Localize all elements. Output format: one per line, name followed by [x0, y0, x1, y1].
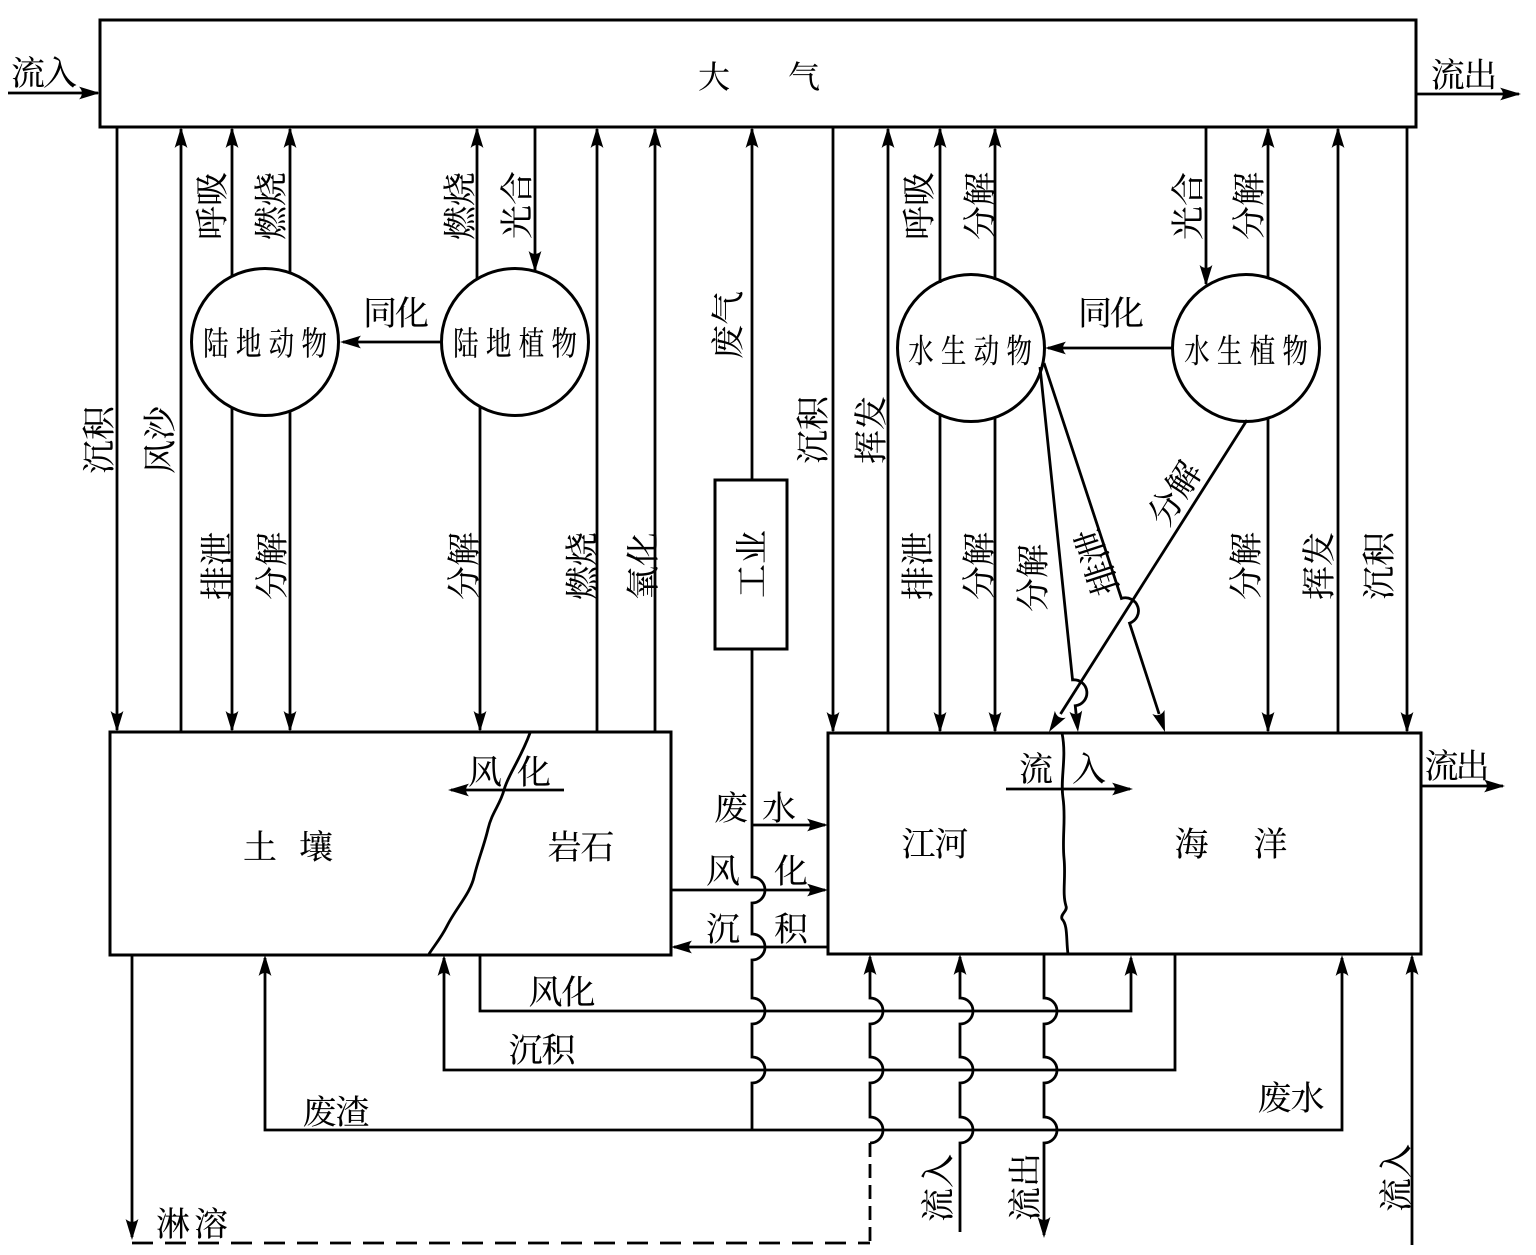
arrowhead 分解 aq.animals→atmosphere: [989, 127, 1002, 148]
arrowhead 燃烧 soil→atmosphere: [591, 127, 604, 148]
line 呼吸 aq.animals→atmosphere: [939, 129, 942, 283]
arrowhead 分解 aq.animals→river: [989, 712, 1002, 733]
arrowhead 沉积 atmosphere→soil: [111, 711, 124, 732]
arrowhead 废水 into river: [1336, 955, 1349, 976]
label 大气: [699, 61, 819, 91]
arrow outflow from atmosphere: [1416, 93, 1519, 96]
label 燃烧 plants→atmosphere: [443, 173, 474, 238]
arrow inflow to atmosphere: [8, 92, 98, 95]
arrowhead 淋溶 down: [126, 1219, 139, 1240]
line 挥发 river→atmosphere: [1337, 129, 1340, 733]
label 燃烧 animals→atmosphere: [254, 173, 285, 238]
box industry 工业: [715, 480, 787, 649]
label 挥发 river→atmosphere: [1302, 533, 1334, 599]
arrowhead 分解 diagonal L3: [1069, 710, 1082, 732]
arrowhead 沉积 atmosphere→river: [827, 712, 840, 733]
arrowhead 风化 bottom→river: [1125, 955, 1138, 976]
line industry waste down: [752, 649, 765, 1130]
arrowhead 废气 industry→atmosphere: [746, 127, 759, 148]
line 光合 atmosphere→plants: [534, 127, 537, 270]
arrowhead 光合 atmosphere→aq.plants: [1200, 265, 1213, 286]
label 风化 mid: [707, 854, 807, 885]
label 沉积 atmosphere→river: [1362, 534, 1393, 599]
arrowhead 分解 aq.plants→river: [1262, 712, 1275, 733]
label 分解 aq.plants→river: [1229, 533, 1261, 599]
label 同化 left: [367, 296, 428, 327]
arrowhead 流入 bottom→river: [954, 954, 967, 975]
line 燃烧 animals→atmosphere: [289, 129, 292, 273]
wavy divider river/ocean: [1062, 733, 1068, 954]
label 废水 bottom: [1259, 1081, 1324, 1113]
line 流出 river→bottom: [1044, 954, 1057, 1235]
line 沉积 atmosphere→river: [1406, 127, 1409, 731]
arrow 流入 river→ocean: [1006, 788, 1130, 791]
label 沉积 mid: [707, 912, 806, 943]
label 分解 plants→soil: [447, 533, 479, 599]
circle aquatic animals 水生动物: [898, 275, 1045, 422]
label 废渣: [304, 1095, 369, 1127]
label 流入 bottom-right: [1379, 1145, 1411, 1211]
label 风化 bottom: [530, 975, 595, 1006]
line 分解 aq.animals→atmosphere: [994, 129, 997, 280]
dashed groundwater line vertical: [869, 1143, 872, 1243]
line 流入 right→ocean: [1411, 957, 1414, 1245]
arrow 废水 industry→river: [752, 824, 825, 827]
arrowhead 呼吸 aq.animals→atmosphere: [934, 127, 947, 148]
line 风沙 soil→atmosphere: [180, 129, 183, 732]
line 流入 bottom→river: [960, 957, 973, 1232]
line 燃烧 soil→atmosphere: [596, 129, 599, 732]
label 淋溶: [157, 1207, 227, 1239]
label 流入 bottom: [921, 1155, 953, 1221]
line 排泄 aq.animals→river diagonal: [1044, 363, 1159, 714]
arrowhead outflow: [1500, 88, 1521, 101]
arrow weathering 风化 rock→soil: [451, 789, 564, 792]
label 风化 in soil box: [469, 755, 550, 786]
circle aquatic plants 水生植物: [1173, 275, 1320, 422]
box river-ocean 江河/海洋: [828, 733, 1421, 954]
label 沉积 atmosphere→river: [796, 398, 827, 463]
label 流出 right: [1426, 749, 1487, 781]
arrowhead 废水 industry→river: [807, 819, 828, 832]
line 分解 plants→soil: [479, 406, 482, 730]
arrow 流出 ocean→outside: [1421, 785, 1503, 788]
arrowhead 排泄 aq.animals→river: [934, 712, 947, 733]
label 岩石: [549, 830, 613, 861]
arrowhead 风沙 soil→atmosphere: [175, 127, 188, 148]
line 分解 animals→soil: [289, 411, 292, 730]
arrowhead 沉积 river→rock: [671, 941, 692, 954]
line 淋溶 soil→groundwater: [131, 955, 134, 1237]
circle terrestrial plants 陆地植物: [442, 269, 589, 416]
arrowhead 沉积 bottom→rock: [438, 955, 451, 976]
label 风沙 soil→atmosphere: [143, 407, 174, 472]
line 光合 atmosphere→aq.plants: [1205, 127, 1208, 284]
label 分解 aq.animals→river: [962, 533, 994, 599]
label 江河: [903, 828, 968, 859]
wavy divider soil/rock: [429, 733, 530, 954]
arrowhead 光合 atmosphere→plants: [529, 251, 542, 272]
arrow 沉积 river→rock: [674, 946, 828, 949]
arrow 风化 rock→river: [671, 889, 825, 892]
line 呼吸 animals→atmosphere: [231, 129, 234, 277]
line 氧化 soil→atmosphere: [654, 129, 657, 732]
arrowhead 废渣 into soil: [259, 955, 272, 976]
label 燃烧 soil→atmosphere: [565, 533, 596, 598]
arrowhead 风化 rock→river: [807, 884, 828, 897]
label 光合 atmosphere→plants: [500, 172, 531, 238]
label 分解: [1016, 545, 1048, 611]
arrowhead 呼吸 animals→atmosphere: [226, 127, 239, 148]
arrowhead 挥发 river→atmosphere: [882, 127, 895, 148]
arrowhead 燃烧 plants→atmosphere: [471, 127, 484, 148]
label 光合 atmosphere→aq.plants: [1171, 173, 1202, 239]
label 同化 right: [1082, 296, 1143, 327]
label 陆地动物: [205, 327, 326, 358]
arrowhead 同化 right: [1045, 342, 1066, 355]
label 呼吸 animals→atmosphere: [196, 173, 227, 237]
line 分解 aq.animals→river: [994, 417, 997, 731]
line groundwater→river: [870, 957, 883, 1143]
arrowhead 排泄 diagonal L1: [1152, 710, 1165, 732]
arrowhead 氧化 soil→atmosphere: [649, 127, 662, 148]
dashed groundwater line horizontal: [132, 1242, 870, 1245]
arrowhead 流入 right→ocean: [1406, 954, 1419, 975]
arrowhead 分解 aq.plants→atmosphere: [1262, 127, 1275, 148]
arrowhead 沉积 atmosphere→river: [1401, 712, 1414, 733]
arrowhead 挥发 river→atmosphere: [1332, 127, 1345, 148]
label 呼吸 aq.animals→atmosphere: [903, 173, 934, 237]
line 分解 aq.plants→river diagonal: [1061, 420, 1248, 714]
line 风化 rock→river bottom: [480, 955, 1131, 1011]
label 排泄 animals→soil: [200, 533, 231, 599]
label 挥发 river→atmosphere: [854, 397, 886, 463]
circle terrestrial animals 陆地动物: [192, 269, 339, 416]
label 分解 animals→soil: [255, 533, 287, 599]
label 流出 bottom: [1008, 1156, 1040, 1220]
arrowhead groundwater→river: [864, 954, 877, 975]
line 废气 industry→atmosphere: [751, 129, 754, 480]
line 排泄 animals→soil: [231, 407, 234, 730]
arrowhead 分解 animals→soil: [284, 711, 297, 732]
arrowhead 风化 in soil box: [448, 784, 469, 797]
label 沉积 bottom: [510, 1033, 574, 1064]
label 流出 top-right: [1432, 58, 1494, 90]
label 流入 top-left: [12, 56, 76, 88]
label 排泄 diagonal: [1071, 526, 1121, 599]
label 陆地植物: [455, 327, 576, 358]
arrowhead 分解 plants→soil: [474, 711, 487, 732]
arrowhead 排泄 animals→soil: [226, 711, 239, 732]
arrow assimilation right 同化: [1048, 347, 1172, 350]
label 废气 industry→atmosphere: [711, 292, 743, 358]
box atmosphere 大气: [100, 20, 1416, 127]
arrowhead 流入 river→ocean: [1112, 783, 1133, 796]
arrow assimilation left 同化: [343, 341, 441, 344]
line 沉积 atmosphere→soil: [116, 127, 119, 730]
arrowhead 同化 left: [340, 336, 361, 349]
label 土壤: [244, 830, 332, 862]
arrowhead inflow→atmosphere: [79, 87, 100, 100]
line 沉积 atmosphere→river: [832, 127, 835, 731]
label 分解 aq.plants→atmosphere: [1232, 173, 1264, 239]
arrowhead 流出 down: [1038, 1217, 1051, 1238]
label 流入 in river box: [1020, 752, 1105, 784]
label 分解 diagonal: [1143, 456, 1205, 529]
label 氧化 soil→atmosphere: [626, 533, 657, 598]
arrowhead 燃烧 animals→atmosphere: [284, 127, 297, 148]
label 废水 mid: [715, 791, 795, 823]
arrowhead 流出 ocean: [1484, 780, 1505, 793]
line 废渣/废水 industry waste bottom: [265, 958, 1342, 1130]
line 排泄 aq.animals→river: [939, 414, 942, 731]
line 沉积 ocean→rock bottom: [444, 954, 1175, 1070]
arrowhead 分解 diagonal L2: [1049, 711, 1066, 732]
label 工业: [736, 531, 765, 597]
box soil-rock 土壤/岩石: [110, 732, 671, 955]
label 排泄 aq.animals→river: [901, 533, 932, 599]
line 燃烧 plants→atmosphere: [476, 129, 479, 280]
label 海洋: [1176, 827, 1287, 858]
label 沉积 atmosphere→soil: [82, 408, 113, 473]
line 分解 aq.animals→river diagonal: [1040, 367, 1087, 714]
line 分解 aq.plants→river: [1267, 418, 1270, 731]
label 水生植物: [1185, 334, 1307, 365]
line 挥发 river→atmosphere: [887, 129, 890, 733]
line 分解 aq.plants→atmosphere: [1267, 129, 1270, 278]
label 水生动物: [909, 335, 1031, 366]
label 分解 aq.animals→atmosphere: [963, 173, 995, 239]
